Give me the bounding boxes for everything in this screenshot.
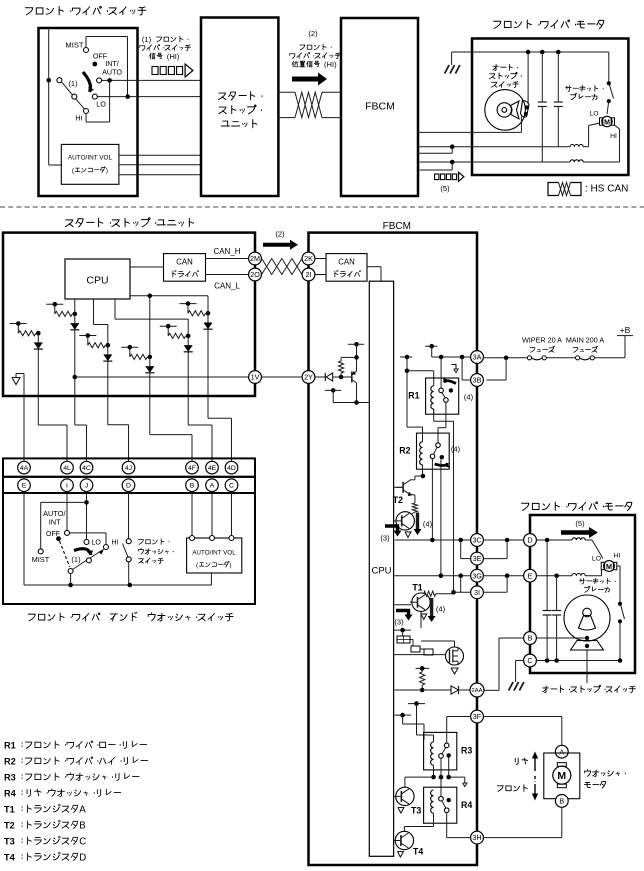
svg-text:E: E bbox=[528, 571, 533, 580]
svg-text:(1): (1) bbox=[142, 35, 152, 44]
svg-text:HI: HI bbox=[112, 540, 119, 547]
svg-text:C: C bbox=[229, 483, 234, 490]
svg-text:4L: 4L bbox=[63, 465, 71, 472]
svg-text:(5): (5) bbox=[575, 519, 585, 528]
svg-text:LO: LO bbox=[92, 540, 102, 547]
svg-text:INT: INT bbox=[49, 518, 61, 527]
svg-text:B: B bbox=[79, 821, 85, 832]
svg-text:4C: 4C bbox=[82, 465, 91, 472]
svg-text:CAN_L: CAN_L bbox=[214, 282, 240, 291]
svg-text:AUTO/INT VOL: AUTO/INT VOL bbox=[68, 155, 113, 162]
svg-text:: HS CAN: : HS CAN bbox=[585, 184, 628, 195]
svg-text:(1): (1) bbox=[68, 79, 78, 88]
svg-text:(1): (1) bbox=[71, 555, 81, 564]
svg-text:C: C bbox=[527, 656, 532, 665]
svg-text:I: I bbox=[66, 483, 68, 490]
svg-text:3E: 3E bbox=[473, 554, 482, 563]
svg-text:M: M bbox=[606, 562, 612, 571]
svg-text:C: C bbox=[79, 837, 86, 848]
svg-text:(3): (3) bbox=[394, 618, 404, 627]
svg-text:LO: LO bbox=[96, 100, 106, 109]
svg-text:3H: 3H bbox=[472, 833, 481, 842]
svg-text:(2): (2) bbox=[275, 230, 285, 239]
svg-text:2AA: 2AA bbox=[472, 688, 483, 694]
svg-text:2K: 2K bbox=[304, 254, 313, 263]
svg-text:B: B bbox=[190, 483, 195, 490]
svg-text:3B: 3B bbox=[473, 376, 482, 385]
svg-text:HI: HI bbox=[610, 133, 617, 140]
svg-text:A: A bbox=[79, 805, 86, 816]
svg-text:B: B bbox=[528, 634, 533, 643]
svg-text:LO: LO bbox=[592, 556, 601, 563]
svg-text:T3: T3 bbox=[4, 837, 15, 847]
svg-text:D: D bbox=[527, 536, 532, 545]
svg-text:R3: R3 bbox=[4, 773, 16, 783]
svg-text:R3: R3 bbox=[461, 746, 472, 756]
svg-text:MIST: MIST bbox=[32, 555, 50, 564]
svg-text:3C: 3C bbox=[472, 536, 481, 545]
svg-text:3F: 3F bbox=[473, 712, 482, 721]
svg-text:T1: T1 bbox=[4, 805, 15, 815]
svg-text:CPU: CPU bbox=[86, 275, 108, 287]
svg-text:3G: 3G bbox=[472, 571, 482, 580]
svg-text:): ) bbox=[106, 168, 108, 175]
svg-text:3A: 3A bbox=[473, 353, 482, 362]
svg-text:FBCM: FBCM bbox=[383, 221, 411, 232]
svg-text:1V: 1V bbox=[251, 373, 260, 382]
svg-text:4E: 4E bbox=[208, 465, 217, 472]
svg-text:M: M bbox=[604, 119, 610, 126]
svg-text:(4): (4) bbox=[436, 605, 446, 614]
svg-text:B: B bbox=[559, 797, 564, 806]
svg-text:A: A bbox=[559, 747, 564, 756]
svg-text:MIST: MIST bbox=[65, 41, 84, 50]
svg-text:(HI): (HI) bbox=[167, 52, 180, 61]
svg-text:J: J bbox=[85, 483, 88, 490]
svg-text:T3: T3 bbox=[411, 806, 421, 816]
svg-text:MAIN 200 A: MAIN 200 A bbox=[566, 336, 605, 345]
svg-text:T4: T4 bbox=[4, 853, 16, 863]
svg-text:(4): (4) bbox=[423, 520, 433, 529]
svg-text:FBCM: FBCM bbox=[365, 101, 395, 113]
svg-text:R1: R1 bbox=[4, 741, 16, 751]
svg-text:4J: 4J bbox=[125, 465, 132, 472]
svg-text:): ) bbox=[229, 562, 231, 569]
svg-text:(4): (4) bbox=[451, 445, 461, 454]
svg-text:AUTO/INT VOL: AUTO/INT VOL bbox=[192, 550, 236, 557]
svg-text:CAN: CAN bbox=[176, 258, 192, 267]
svg-text:(2): (2) bbox=[308, 29, 318, 38]
svg-text:(5): (5) bbox=[440, 184, 450, 193]
svg-text:CAN_H: CAN_H bbox=[213, 247, 240, 256]
svg-text:T2: T2 bbox=[393, 495, 403, 505]
svg-text:T2: T2 bbox=[4, 821, 15, 831]
svg-text:R4: R4 bbox=[461, 800, 472, 810]
svg-text:4F: 4F bbox=[188, 465, 196, 472]
svg-text:CAN: CAN bbox=[338, 258, 354, 267]
svg-text:HI: HI bbox=[614, 553, 621, 560]
svg-text:2O: 2O bbox=[250, 270, 260, 279]
svg-text:(3): (3) bbox=[380, 534, 390, 543]
svg-text:T4: T4 bbox=[413, 847, 423, 857]
svg-text:E: E bbox=[22, 483, 27, 490]
svg-text:4D: 4D bbox=[227, 465, 236, 472]
svg-text:M: M bbox=[557, 770, 566, 782]
svg-text:2I: 2I bbox=[306, 270, 312, 279]
svg-text:LO: LO bbox=[589, 111, 598, 118]
svg-text:T1: T1 bbox=[412, 583, 422, 593]
svg-text:HI: HI bbox=[75, 114, 82, 123]
svg-text:4A: 4A bbox=[20, 465, 29, 472]
svg-text:CPU: CPU bbox=[371, 566, 391, 577]
svg-text:2M: 2M bbox=[250, 254, 260, 263]
svg-text:WIPER 20 A: WIPER 20 A bbox=[522, 336, 562, 345]
svg-text:R2: R2 bbox=[399, 446, 410, 456]
svg-text:(4): (4) bbox=[464, 393, 474, 402]
svg-text:D: D bbox=[79, 853, 86, 864]
svg-text:2Y: 2Y bbox=[304, 373, 313, 382]
svg-text:3I: 3I bbox=[474, 588, 480, 597]
svg-text:+B: +B bbox=[620, 325, 631, 335]
svg-text:A: A bbox=[210, 483, 215, 490]
svg-text:R2: R2 bbox=[4, 757, 16, 767]
svg-text:(HI): (HI) bbox=[324, 60, 337, 69]
svg-text:AUTO: AUTO bbox=[102, 68, 122, 77]
svg-text:R1: R1 bbox=[408, 391, 419, 401]
svg-text:R4: R4 bbox=[4, 789, 17, 799]
svg-text:D: D bbox=[126, 483, 131, 490]
